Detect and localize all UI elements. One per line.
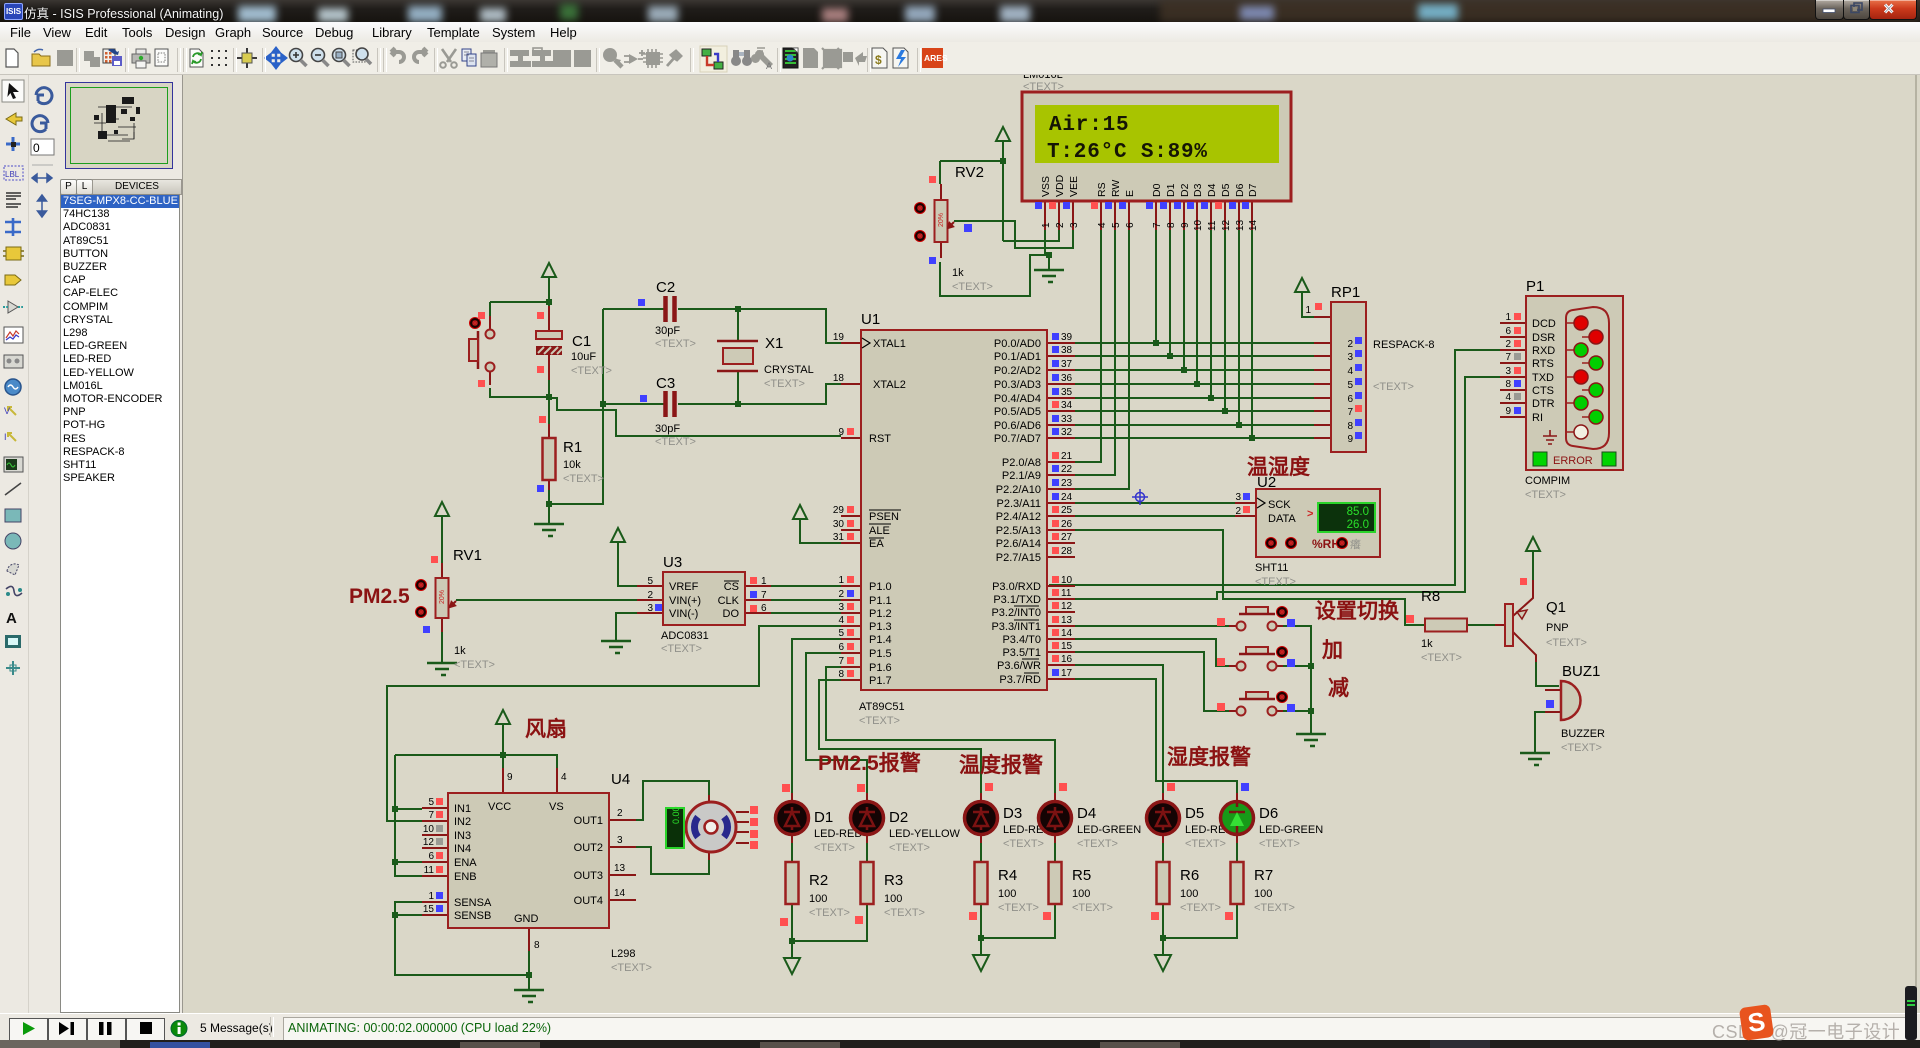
svg-text:RS: RS xyxy=(1096,182,1108,197)
svg-text:3: 3 xyxy=(647,603,653,614)
svg-text:C3: C3 xyxy=(656,375,675,392)
svg-text:D1: D1 xyxy=(814,809,833,826)
wire RV2 bottom loop xyxy=(940,255,1046,296)
svg-text:P1.4: P1.4 xyxy=(869,634,892,646)
svg-text:30pF: 30pF xyxy=(655,423,680,435)
origin xyxy=(237,48,257,68)
svg-text:13: 13 xyxy=(1235,219,1246,231)
svg-text:32: 32 xyxy=(1061,427,1073,438)
svg-text:SCK: SCK xyxy=(1268,499,1291,511)
svg-text:RI: RI xyxy=(1532,412,1543,424)
svg-text:EA: EA xyxy=(869,538,884,550)
svg-text:3: 3 xyxy=(838,602,844,613)
svg-text:100: 100 xyxy=(998,888,1016,900)
wire button bottom to junction xyxy=(490,388,549,397)
svg-text:<TEXT>: <TEXT> xyxy=(889,842,930,854)
wire VSS pin1 to ground xyxy=(1045,230,1049,270)
svg-text:OUT2: OUT2 xyxy=(574,842,603,854)
wire P1.6 to D4 xyxy=(826,667,1055,798)
junction at 548,397 xyxy=(546,394,552,400)
undo xyxy=(391,48,404,62)
wire buzzer bottom to ground xyxy=(1535,712,1559,753)
svg-text:C1: C1 xyxy=(572,333,591,350)
svg-text:17: 17 xyxy=(1061,668,1073,679)
svg-text:11: 11 xyxy=(1207,220,1218,231)
new doc xyxy=(6,49,18,67)
svg-text:<TEXT>: <TEXT> xyxy=(1259,838,1300,850)
svg-text:D7: D7 xyxy=(1247,183,1259,197)
svg-text:VDD: VDD xyxy=(1054,174,1066,197)
svg-text:<TEXT>: <TEXT> xyxy=(998,902,1039,914)
svg-text:P3.7/RD: P3.7/RD xyxy=(999,674,1041,686)
wire crystal bottom xyxy=(737,371,739,404)
U3 ADC area wires xyxy=(427,502,841,675)
svg-text:<TEXT>: <TEXT> xyxy=(655,436,696,448)
import pages xyxy=(84,51,100,67)
power symbol RV1 xyxy=(435,502,449,528)
svg-text:7: 7 xyxy=(761,590,767,601)
svg-text:DCD: DCD xyxy=(1532,318,1556,330)
svg-text:PNP: PNP xyxy=(1546,622,1569,634)
svg-text:R1: R1 xyxy=(563,439,582,456)
pan arrows xyxy=(266,48,286,68)
capacitor C1 xyxy=(536,306,612,380)
svg-text:85.0: 85.0 xyxy=(1347,506,1369,518)
svg-text:RV2: RV2 xyxy=(955,164,984,181)
junction dots data bus xyxy=(1153,340,1255,441)
export markbook xyxy=(103,49,115,63)
svg-text:R8: R8 xyxy=(1421,588,1440,605)
junction at 737,309 xyxy=(735,306,741,312)
copy xyxy=(462,49,471,61)
LCD supply wires xyxy=(940,127,1129,489)
svg-text:RW: RW xyxy=(1110,180,1122,197)
ARES xyxy=(922,48,943,68)
svg-text:31: 31 xyxy=(833,532,845,543)
svg-text:20%: 20% xyxy=(439,590,446,604)
svg-text:<TEXT>: <TEXT> xyxy=(655,338,696,350)
wire P2.4 to DATA xyxy=(1049,515,1235,517)
svg-text:温度报警: 温度报警 xyxy=(959,753,1043,777)
capacitor C2 xyxy=(638,279,696,350)
svg-text:VIN(+): VIN(+) xyxy=(669,595,701,607)
button SET xyxy=(1217,606,1295,631)
svg-text:ADC0831: ADC0831 xyxy=(661,630,709,642)
refresh doc xyxy=(190,49,203,67)
svg-text:<TEXT>: <TEXT> xyxy=(1254,902,1295,914)
wire VDD pin2 xyxy=(1003,230,1059,241)
svg-text:D2: D2 xyxy=(1179,183,1191,197)
bom doc xyxy=(872,48,887,68)
resistor R2 xyxy=(780,862,850,926)
svg-text:11: 11 xyxy=(424,865,435,876)
ground below VIN- xyxy=(601,641,631,653)
junction at 602,404 xyxy=(600,401,606,407)
svg-text:<TEXT>: <TEXT> xyxy=(1023,81,1064,93)
wire button top horizontal xyxy=(490,302,549,316)
svg-text:D6: D6 xyxy=(1234,183,1246,197)
svg-text:BUZ1: BUZ1 xyxy=(1562,663,1600,680)
binoculars xyxy=(731,50,752,66)
svg-text:ENA: ENA xyxy=(454,857,477,869)
svg-text:XTAL1: XTAL1 xyxy=(873,338,906,350)
potentiometer RV1 xyxy=(349,547,495,671)
wire P1.5 to D2 xyxy=(806,653,867,798)
device pins xyxy=(629,54,638,64)
resistor R1 xyxy=(537,416,604,492)
svg-text:P2.7/A15: P2.7/A15 xyxy=(996,552,1041,564)
svg-text:LED-GREEN: LED-GREEN xyxy=(1259,824,1323,836)
svg-text:P1: P1 xyxy=(1526,278,1544,295)
svg-text:湿度报警: 湿度报警 xyxy=(1167,745,1251,769)
svg-text:6: 6 xyxy=(838,642,844,653)
cut xyxy=(442,49,456,62)
svg-text:26.0: 26.0 xyxy=(1347,519,1369,531)
wire P0.2 row xyxy=(1049,369,1314,371)
svg-text:ALE: ALE xyxy=(869,525,890,537)
wire CS to P1.0 xyxy=(745,585,841,587)
wire P0.3 row xyxy=(1049,383,1314,385)
svg-text:2: 2 xyxy=(1347,339,1353,350)
svg-text:8: 8 xyxy=(1166,222,1177,228)
svg-text:14: 14 xyxy=(1061,628,1073,639)
svg-text:P2.3/A11: P2.3/A11 xyxy=(997,498,1041,510)
resistor R3 xyxy=(855,862,925,924)
block subckt xyxy=(532,50,553,67)
svg-text:<TEXT>: <TEXT> xyxy=(1077,838,1118,850)
doc dashed xyxy=(155,49,168,66)
svg-text:D6: D6 xyxy=(1259,805,1278,822)
svg-text:R4: R4 xyxy=(998,867,1017,884)
wire P1.3 to L298 IN2 xyxy=(387,626,841,821)
svg-text:P1.3: P1.3 xyxy=(869,621,892,633)
svg-text:<TEXT>: <TEXT> xyxy=(661,643,702,655)
P1 port wires to fan and LEDs xyxy=(387,626,1055,821)
erc doc xyxy=(893,48,908,68)
svg-text:D5: D5 xyxy=(1220,183,1232,197)
svg-text:5: 5 xyxy=(838,628,844,639)
svg-text:21: 21 xyxy=(1061,451,1073,462)
svg-text:8: 8 xyxy=(534,940,540,951)
svg-text:VCC: VCC xyxy=(488,801,511,813)
wire P0.4 row xyxy=(1049,397,1314,399)
open folder xyxy=(32,54,50,66)
svg-text:7: 7 xyxy=(1347,407,1353,418)
svg-text:COMPIM: COMPIM xyxy=(1525,475,1570,487)
svg-text:癢: 癢 xyxy=(1350,537,1361,551)
wire P1.7 to D3 xyxy=(819,680,981,798)
connector P1 COMPIM xyxy=(1500,278,1623,501)
svg-text:OUT3: OUT3 xyxy=(574,870,603,882)
svg-text:9: 9 xyxy=(1180,222,1191,228)
svg-text:3: 3 xyxy=(1069,222,1080,228)
svg-text:<TEXT>: <TEXT> xyxy=(1373,381,1414,393)
wire C1 bottom to R1 top xyxy=(548,360,550,424)
svg-text:T:26°C S:89%: T:26°C S:89% xyxy=(1047,141,1208,164)
arrow out xyxy=(843,52,853,62)
svg-text:风扇: 风扇 xyxy=(525,717,567,741)
svg-text:<TEXT>: <TEXT> xyxy=(563,473,604,485)
zoom area xyxy=(353,50,365,62)
svg-text:R7: R7 xyxy=(1254,867,1273,884)
svg-text:9: 9 xyxy=(1505,406,1511,417)
svg-text:9: 9 xyxy=(1347,434,1353,445)
block terminal xyxy=(510,50,531,67)
button INC xyxy=(1217,646,1295,671)
wire D7 vertical xyxy=(1251,230,1253,438)
svg-text:D4: D4 xyxy=(1206,183,1218,197)
wire P3.7 to D6 xyxy=(1049,679,1237,798)
svg-text:P0.7/AD7: P0.7/AD7 xyxy=(994,433,1041,445)
svg-text:<TEXT>: <TEXT> xyxy=(952,281,993,293)
svg-text:<TEXT>: <TEXT> xyxy=(814,842,855,854)
wire C3 row right to XTAL2 xyxy=(678,384,841,404)
svg-text:R2: R2 xyxy=(809,872,828,889)
wire RV2 top rail xyxy=(940,153,1003,241)
ground buttons xyxy=(1296,734,1326,746)
svg-text:P2.0/A8: P2.0/A8 xyxy=(1002,457,1041,469)
svg-text:XTAL2: XTAL2 xyxy=(873,379,906,391)
power symbol RP1 xyxy=(1295,278,1309,304)
svg-text:1: 1 xyxy=(838,575,844,586)
wire OUT1 to motor xyxy=(636,781,709,820)
svg-text:AT89C51: AT89C51 xyxy=(859,701,905,713)
svg-text:P3.2/INT0: P3.2/INT0 xyxy=(991,607,1041,619)
svg-text:OUT4: OUT4 xyxy=(574,895,603,907)
svg-text:2: 2 xyxy=(1055,222,1066,228)
svg-text:>: > xyxy=(1307,508,1313,520)
svg-text:16: 16 xyxy=(1061,654,1073,665)
svg-text:15: 15 xyxy=(1061,641,1073,652)
junction at 1310,666 xyxy=(1308,663,1314,669)
wire C2 row right to XTAL1 xyxy=(678,309,841,343)
svg-text:R3: R3 xyxy=(884,872,903,889)
svg-text:U1: U1 xyxy=(861,311,880,328)
svg-text:U4: U4 xyxy=(611,771,630,788)
svg-text:1k: 1k xyxy=(952,267,964,279)
svg-text:VEE: VEE xyxy=(1068,176,1080,197)
svg-text:P3.6/WR: P3.6/WR xyxy=(997,660,1041,672)
svg-text:<TEXT>: <TEXT> xyxy=(884,907,925,919)
buttons wires xyxy=(1049,626,1326,798)
power symbol LCD xyxy=(996,127,1010,153)
power symbol VREF xyxy=(611,528,625,554)
svg-text:23: 23 xyxy=(1061,478,1073,489)
svg-text:CLK: CLK xyxy=(718,595,740,607)
wire P0.0 row xyxy=(1049,342,1314,344)
svg-text:6: 6 xyxy=(1125,222,1136,228)
svg-text:6: 6 xyxy=(1505,326,1511,337)
wire R8 to Q1 base xyxy=(1467,624,1495,626)
svg-text:VIN(-): VIN(-) xyxy=(669,608,698,620)
wire RV1 wiper to VIN+ xyxy=(456,599,637,601)
svg-text:P0.4/AD4: P0.4/AD4 xyxy=(994,393,1041,405)
svg-text:0: 0 xyxy=(33,141,40,155)
wire D0 vertical xyxy=(1155,230,1157,343)
wire LCD E to P2.2 xyxy=(1049,230,1129,489)
svg-text:5: 5 xyxy=(428,797,434,808)
svg-text:$: $ xyxy=(875,53,882,67)
junction at 791,941 xyxy=(789,938,795,944)
svg-text:P1.7: P1.7 xyxy=(869,675,892,687)
svg-text:L298: L298 xyxy=(611,948,635,960)
svg-text:LBL: LBL xyxy=(5,170,20,179)
svg-text:<TEXT>: <TEXT> xyxy=(1546,637,1587,649)
ground below L298 xyxy=(514,990,544,1002)
wire P3.3 to button SET xyxy=(1049,625,1229,627)
svg-text:P3.4/T0: P3.4/T0 xyxy=(1002,634,1041,646)
button RESET xyxy=(469,312,495,387)
svg-text:E: E xyxy=(1124,190,1136,197)
wire VCC stem to C1 xyxy=(548,289,550,331)
svg-text:P1.0: P1.0 xyxy=(869,581,892,593)
svg-text:7: 7 xyxy=(1152,222,1163,228)
svg-text:2: 2 xyxy=(647,590,653,601)
ground below R1 xyxy=(534,524,564,536)
wire buttons common to ground xyxy=(1277,626,1311,734)
svg-text:D4: D4 xyxy=(1077,805,1096,822)
svg-text:24: 24 xyxy=(1061,492,1073,503)
svg-text:30: 30 xyxy=(833,519,845,530)
svg-text:<TEXT>: <TEXT> xyxy=(1255,576,1296,588)
svg-text:PSEN: PSEN xyxy=(869,511,899,523)
router highlighted xyxy=(700,46,727,72)
wire C2 row left xyxy=(603,308,664,310)
svg-text:BUZZER: BUZZER xyxy=(1561,728,1605,740)
wire C2C3 common trunk xyxy=(549,309,603,504)
gray doc xyxy=(803,48,818,68)
svg-text:P2.1/A9: P2.1/A9 xyxy=(1002,470,1041,482)
svg-text:ARES: ARES xyxy=(924,53,948,63)
svg-text:4: 4 xyxy=(838,615,844,626)
wire fan rail xyxy=(395,736,557,770)
canvas right edge xyxy=(1915,75,1917,1013)
svg-text:1: 1 xyxy=(1041,222,1052,228)
resistor pack RP1 RESPACK-8 xyxy=(1305,284,1434,452)
svg-text:10: 10 xyxy=(423,824,435,835)
svg-text:<TEXT>: <TEXT> xyxy=(571,365,612,377)
svg-text:GND: GND xyxy=(514,913,539,925)
button DEC xyxy=(1217,691,1295,716)
resistor R5 xyxy=(1043,862,1113,920)
svg-text:LED-GREEN: LED-GREEN xyxy=(1077,824,1141,836)
svg-text:V: V xyxy=(4,406,10,416)
svg-text:P0.0/AD0: P0.0/AD0 xyxy=(994,338,1041,350)
zoom in xyxy=(290,49,303,62)
svg-text:12: 12 xyxy=(1221,219,1232,231)
svg-text:100: 100 xyxy=(1254,888,1272,900)
wire P3.4 to button INC xyxy=(1049,639,1229,666)
svg-text:<TEXT>: <TEXT> xyxy=(1421,652,1462,664)
transistor Q1 PNP xyxy=(1495,578,1587,662)
svg-text:100: 100 xyxy=(884,893,902,905)
grid dots xyxy=(211,50,227,66)
svg-text:5: 5 xyxy=(1111,222,1122,228)
svg-text:I: I xyxy=(4,432,7,442)
svg-text:35: 35 xyxy=(1061,387,1073,398)
ground buzzer xyxy=(1520,753,1550,765)
svg-text:10k: 10k xyxy=(563,459,581,471)
wire VIN- to ground xyxy=(616,613,637,641)
svg-text:<TEXT>: <TEXT> xyxy=(1185,838,1226,850)
wire R4 R5 join xyxy=(981,904,1055,955)
svg-text:VREF: VREF xyxy=(669,581,699,593)
svg-text:DSR: DSR xyxy=(1532,332,1555,344)
svg-text:P0.5/AD5: P0.5/AD5 xyxy=(994,406,1041,418)
wire RST net from junction to RST pin xyxy=(549,398,841,436)
wire LCD RW to P2.1 xyxy=(1049,230,1115,475)
power symbol VCC reset xyxy=(542,263,556,289)
svg-text:13: 13 xyxy=(614,863,626,874)
zoom out xyxy=(312,49,325,62)
svg-text:P2.4/A12: P2.4/A12 xyxy=(996,511,1041,523)
resistor R7 xyxy=(1225,862,1295,920)
svg-text:P2.5/A13: P2.5/A13 xyxy=(996,525,1041,537)
svg-text:<TEXT>: <TEXT> xyxy=(611,962,652,974)
svg-text:P0.3/AD3: P0.3/AD3 xyxy=(994,379,1041,391)
svg-text:P2.2/A10: P2.2/A10 xyxy=(996,484,1041,496)
LED D6 green lit xyxy=(1221,783,1324,850)
wire D4 cathode to R5 xyxy=(1054,838,1056,862)
svg-text:2: 2 xyxy=(1505,339,1511,350)
svg-text:温湿度: 温湿度 xyxy=(1247,455,1310,479)
wire D3 vertical xyxy=(1196,230,1198,384)
svg-text:D1: D1 xyxy=(1165,183,1177,197)
svg-text:1: 1 xyxy=(1505,312,1511,323)
svg-text:27: 27 xyxy=(1061,532,1073,543)
svg-text:Air:15: Air:15 xyxy=(1049,114,1129,137)
svg-text:39: 39 xyxy=(1061,332,1073,343)
svg-text:VS: VS xyxy=(549,801,564,813)
svg-text:30pF: 30pF xyxy=(655,325,680,337)
svg-text:28: 28 xyxy=(1061,546,1073,557)
wrench A xyxy=(751,50,773,68)
svg-text:1: 1 xyxy=(428,891,434,902)
redo xyxy=(414,48,427,62)
hammer xyxy=(667,51,681,66)
magnifier gray xyxy=(603,48,617,62)
junction at 1162,938 xyxy=(1160,935,1166,941)
junction at 980,938 xyxy=(978,935,984,941)
junction at 548,302 xyxy=(546,299,552,305)
svg-text:A: A xyxy=(6,610,17,627)
svg-text:8: 8 xyxy=(1347,421,1353,432)
junction at 1002,161 xyxy=(1000,158,1006,164)
svg-text:C2: C2 xyxy=(656,279,675,296)
svg-text:12: 12 xyxy=(1061,601,1073,612)
wire RV2 wiper to VEE xyxy=(954,221,1073,248)
svg-text:%RH: %RH xyxy=(1312,537,1340,551)
wire C3 row left xyxy=(603,403,664,405)
print xyxy=(132,54,150,63)
x block xyxy=(822,48,841,69)
svg-text:IN4: IN4 xyxy=(454,843,471,855)
svg-text:100: 100 xyxy=(1180,888,1198,900)
junction at 1310,711 xyxy=(1308,708,1314,714)
svg-text:1: 1 xyxy=(761,576,767,587)
block square2 xyxy=(574,50,591,67)
resistor R8 xyxy=(1406,588,1467,664)
svg-text:4: 4 xyxy=(1097,222,1108,228)
LED cathode wires xyxy=(784,838,1237,974)
svg-text:14: 14 xyxy=(614,888,626,899)
svg-text:7: 7 xyxy=(1505,352,1511,363)
svg-text:12: 12 xyxy=(423,837,435,848)
svg-text:14: 14 xyxy=(1248,219,1259,231)
wire P2.5 to R8 xyxy=(1049,530,1425,625)
svg-text:DTR: DTR xyxy=(1532,398,1555,410)
ground below RV1 xyxy=(427,663,457,675)
